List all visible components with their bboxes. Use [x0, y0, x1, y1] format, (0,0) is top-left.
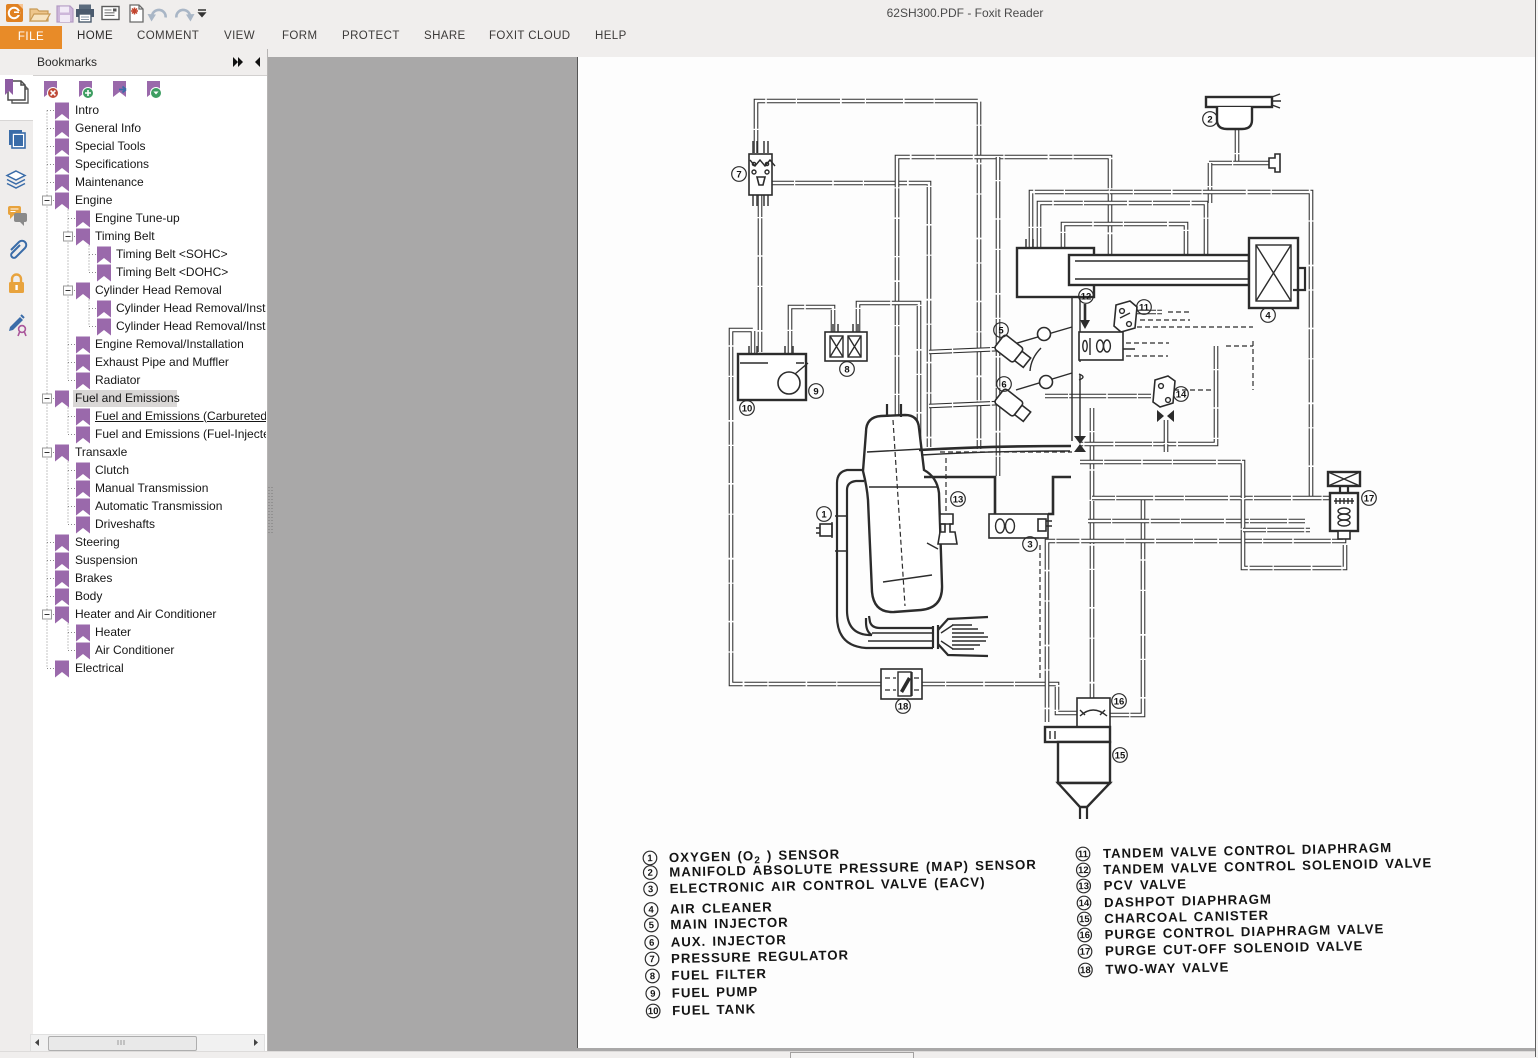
svg-text:14: 14: [1079, 898, 1091, 909]
svg-text:3: 3: [648, 884, 654, 895]
svg-text:4: 4: [1265, 310, 1271, 321]
svg-text:9: 9: [650, 989, 656, 1000]
svg-text:PCV VALVE: PCV VALVE: [1103, 876, 1187, 893]
svg-text:17: 17: [1364, 493, 1375, 504]
svg-text:8: 8: [650, 971, 656, 982]
svg-text:15: 15: [1079, 914, 1091, 925]
svg-text:16: 16: [1079, 930, 1090, 941]
svg-text:7: 7: [736, 169, 741, 180]
svg-text:6: 6: [649, 938, 655, 949]
svg-text:13: 13: [1078, 881, 1089, 892]
svg-text:15: 15: [1115, 750, 1126, 761]
svg-text:11: 11: [1139, 302, 1150, 313]
svg-text:13: 13: [953, 494, 964, 505]
svg-text:FUEL TANK: FUEL TANK: [672, 1001, 756, 1018]
svg-text:8: 8: [844, 364, 849, 375]
svg-text:18: 18: [1080, 965, 1091, 976]
svg-text:18: 18: [898, 701, 909, 712]
svg-text:14: 14: [1176, 389, 1187, 400]
svg-text:4: 4: [648, 905, 654, 916]
svg-text:9: 9: [813, 386, 818, 397]
svg-text:10: 10: [742, 403, 753, 414]
svg-text:2: 2: [648, 868, 654, 879]
svg-text:AUX. INJECTOR: AUX. INJECTOR: [671, 932, 787, 949]
svg-text:10: 10: [648, 1006, 659, 1017]
svg-text:5: 5: [998, 325, 1004, 336]
svg-text:11: 11: [1078, 849, 1089, 860]
svg-text:FUEL FILTER: FUEL FILTER: [671, 966, 767, 983]
svg-text:12: 12: [1081, 291, 1092, 302]
svg-text:7: 7: [649, 954, 655, 965]
svg-text:2: 2: [1207, 114, 1212, 125]
svg-text:FUEL PUMP: FUEL PUMP: [672, 984, 759, 1001]
svg-text:MAIN INJECTOR: MAIN INJECTOR: [670, 915, 789, 932]
svg-text:AIR CLEANER: AIR CLEANER: [670, 899, 773, 916]
svg-text:12: 12: [1078, 865, 1089, 876]
svg-text:6: 6: [1001, 379, 1006, 390]
svg-text:3: 3: [1027, 539, 1032, 550]
svg-text:16: 16: [1114, 696, 1125, 707]
svg-text:1: 1: [821, 509, 827, 520]
svg-text:17: 17: [1080, 947, 1091, 958]
svg-text:5: 5: [649, 920, 655, 931]
svg-text:1: 1: [647, 853, 653, 864]
svg-text:TWO-WAY VALVE: TWO-WAY VALVE: [1105, 959, 1229, 977]
